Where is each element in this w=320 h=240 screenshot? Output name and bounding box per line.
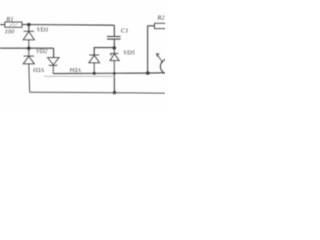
svg-text:R2: R2 <box>156 15 165 22</box>
frame bottom line <box>30 91 165 94</box>
wire R2 lead <box>148 25 155 27</box>
faint frame line upper <box>44 75 114 77</box>
node junction J1 <box>27 23 31 27</box>
capacitor C1 <box>107 25 121 48</box>
wire VD4 top corner <box>94 48 114 55</box>
node junction J3 <box>113 46 117 50</box>
node junction VD4-bottom <box>93 72 96 75</box>
resistor R2 (clipped) <box>155 23 168 28</box>
zener VD5 <box>110 48 119 73</box>
svg-text:VD2: VD2 <box>36 48 47 55</box>
wire bottom rail <box>53 72 164 75</box>
node junction J2 <box>27 46 31 50</box>
node junction bottom line <box>113 91 116 94</box>
node small crossing dot VD5/bottom <box>113 72 116 75</box>
wire VD1 top <box>28 25 30 32</box>
svg-text:VD1: VD1 <box>37 27 49 34</box>
node junction J5 <box>146 71 150 75</box>
LED HL1 circle (clipped) <box>160 59 175 74</box>
svg-text:C1: C1 <box>121 28 129 35</box>
wire VD5 column extension below <box>113 73 115 92</box>
LED arrow <box>156 53 162 62</box>
svg-text:VD3: VD3 <box>33 66 44 73</box>
wire top rail <box>22 24 114 27</box>
diode VD2 <box>23 48 34 92</box>
diode VD1 <box>23 31 34 48</box>
diode VD4 <box>89 55 100 73</box>
svg-text:100: 100 <box>5 28 15 35</box>
wire mid-left rail <box>0 47 54 49</box>
wire left lead of R1 <box>0 24 5 26</box>
svg-text:R1: R1 <box>5 16 13 23</box>
svg-text:VD5: VD5 <box>123 50 135 57</box>
resistor R1 <box>5 22 22 27</box>
svg-text:VD4: VD4 <box>70 66 81 73</box>
diode VD3 (points down) <box>48 58 59 74</box>
wire corner to VD3 <box>53 48 55 57</box>
wire R2 drop <box>147 26 149 73</box>
